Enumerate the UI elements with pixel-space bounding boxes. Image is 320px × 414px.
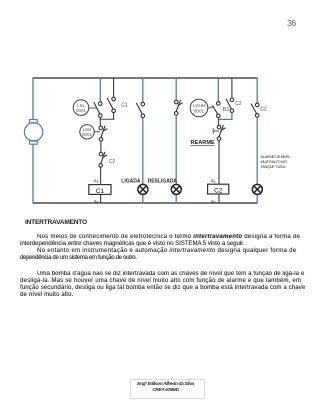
svg-text:C2: C2 [109,159,116,165]
svg-text:DESLIGADA: DESLIGADA [148,178,178,184]
svg-text:1: 1 [214,180,216,184]
svg-text:C2: C2 [235,101,242,107]
svg-text:REARME: REARME [191,140,216,146]
svg-text:B3: B3 [223,107,229,113]
svg-text:0001: 0001 [194,108,205,113]
svg-text:C2: C2 [214,188,223,195]
svg-text:MUITO ALTO NO: MUITO ALTO NO [261,160,287,164]
svg-text:LIGADA: LIGADA [121,178,141,184]
svg-text:C1: C1 [121,103,128,109]
svg-text:0001: 0001 [82,132,93,137]
svg-text:2: 2 [214,201,216,205]
svg-text:TANQUE T-0001: TANQUE T-0001 [261,165,286,169]
svg-text:C2: C2 [260,107,267,113]
svg-text:C1: C1 [96,188,105,195]
svg-text:LSHH: LSHH [193,103,205,108]
svg-text:1: 1 [97,180,99,184]
svg-text:2: 2 [97,201,99,205]
svg-text:0001: 0001 [76,108,87,113]
svg-text:ALARME DE NIVEL: ALARME DE NIVEL [261,155,292,159]
